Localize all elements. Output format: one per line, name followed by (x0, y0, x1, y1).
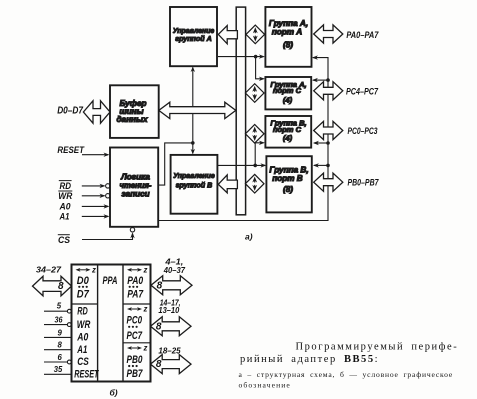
chip outer box (72, 265, 151, 382)
pin 36 wire with bubble (44, 323, 71, 327)
svg-text:группой А: группой А (175, 34, 212, 43)
svg-text:б): б) (110, 387, 118, 397)
group B port C box (265, 116, 311, 148)
svg-text:рийный адаптер ВВ55:: рийный адаптер ВВ55: (240, 354, 379, 365)
pin 35 wire (44, 373, 72, 375)
node junction dot on link at logic branch (191, 141, 195, 145)
svg-text:PA7: PA7 (127, 288, 144, 300)
pin 8 wire (44, 349, 72, 351)
svg-text:A1: A1 (77, 344, 88, 356)
svg-text:PA0: PA0 (127, 275, 144, 287)
chip divider PC/PB cells (123, 342, 151, 344)
diamond exchange symbol bus/port C lower (245, 125, 264, 144)
arrow bus to control group B (hollow) (218, 175, 237, 193)
CS input wire with inverter bubble at logic bottom (82, 228, 135, 240)
PC0-PC3 external double arrow (314, 121, 343, 139)
svg-text:PPA: PPA (103, 275, 118, 287)
label CS with overline (58, 235, 70, 245)
WR input wire with inverter bubble (82, 194, 110, 198)
svg-text:PC0: PC0 (127, 315, 143, 327)
node junction dot (255.2,165.4) (253, 164, 257, 168)
diamond exchange symbol bus/port B (245, 174, 264, 193)
svg-text:40–37: 40–37 (163, 266, 186, 275)
chip PC cell exchange mark (127, 307, 142, 311)
chip PB cell exchange mark (127, 346, 142, 350)
svg-text:18–25: 18–25 (158, 347, 181, 356)
data bus rectangle (236, 7, 245, 215)
svg-text:z: z (91, 265, 96, 274)
RESET input wire (82, 153, 110, 157)
svg-text:RESET: RESET (74, 368, 99, 380)
svg-text:Программируемый перифе-: Программируемый перифе- (296, 342, 459, 353)
svg-text:RD: RD (77, 306, 88, 318)
svg-text:порт С: порт С (273, 86, 302, 95)
svg-text:z: z (143, 344, 148, 353)
svg-text:RD: RD (60, 181, 72, 191)
svg-text:а – структурная схема, б — усл: а – структурная схема, б — условное граф… (239, 370, 454, 379)
svg-text:34–27: 34–27 (36, 266, 62, 275)
svg-text:z: z (143, 305, 148, 314)
node dot (328,165.4) (326, 164, 330, 168)
diamond exchange symbol bus/port A (246, 25, 265, 44)
svg-text:A0: A0 (59, 201, 71, 211)
svg-text:8: 8 (156, 321, 162, 332)
wire vertical link between control group A and control group B (191, 67, 195, 155)
chip PA cell exchange mark (127, 268, 142, 272)
svg-text:D0: D0 (77, 275, 90, 287)
svg-text:A1: A1 (59, 212, 70, 222)
svg-text:порт С: порт С (273, 125, 302, 134)
control group B box (171, 155, 218, 214)
34-27 external double arrow (33, 276, 72, 296)
A0 input wire (82, 204, 110, 208)
svg-text:(8): (8) (283, 41, 293, 50)
control group A box (170, 7, 217, 66)
chip divider right column (122, 265, 124, 382)
pin 9 wire (44, 336, 72, 338)
PB pins external double arrow (151, 355, 192, 374)
data bus buffer box (110, 85, 159, 138)
PA pins external double arrow (151, 276, 192, 295)
svg-text:8: 8 (156, 359, 162, 370)
group A port C box (265, 77, 311, 109)
svg-text:обозначение: обозначение (239, 381, 291, 390)
svg-text:группой В: группой В (176, 181, 213, 190)
node dot (328,80.1) (326, 78, 330, 82)
svg-text:PA0–PA7: PA0–PA7 (346, 30, 379, 40)
wire branch down to port C upper (256, 57, 265, 81)
svg-text:RESET: RESET (57, 145, 85, 155)
read/write logic box (110, 148, 158, 227)
svg-text:6: 6 (58, 353, 63, 362)
svg-text:CS: CS (77, 356, 89, 368)
svg-text:8: 8 (157, 281, 163, 292)
svg-text:z: z (143, 265, 148, 274)
D0-D7 external double arrow (83, 101, 110, 123)
svg-text:36: 36 (55, 316, 64, 325)
svg-text:8: 8 (58, 281, 64, 292)
pin 6 wire with bubble (44, 360, 71, 364)
svg-text:(8): (8) (283, 185, 293, 194)
svg-text:CS: CS (58, 235, 70, 245)
svg-text:PC0–PC3: PC0–PC3 (348, 126, 378, 136)
node junction dot (255.6,56.6) (254, 55, 258, 59)
label WR with overline (58, 191, 72, 201)
arrow bus to control group A (hollow) (218, 26, 237, 44)
wire internal control bus: port A right, down, along bottom to logic (158, 55, 328, 220)
A1 input wire (82, 214, 110, 218)
svg-text:5: 5 (57, 302, 62, 311)
svg-text:данных: данных (116, 115, 147, 124)
svg-text:записи: записи (121, 190, 149, 199)
chip divider left column (97, 265, 99, 382)
PB0-PB7 external double arrow (314, 173, 343, 191)
wire branch up to port C lower (255, 141, 265, 166)
svg-text:PC7: PC7 (127, 330, 143, 342)
RD input wire with inverter bubble (82, 184, 110, 188)
svg-text:8: 8 (58, 341, 63, 350)
PC pins external double arrow (151, 317, 192, 336)
svg-text:Управление: Управление (173, 171, 215, 180)
svg-text:а): а) (245, 232, 253, 242)
svg-text:порт В: порт В (272, 174, 303, 183)
PC4-PC7 external double arrow (314, 82, 343, 100)
group B port B box (266, 156, 311, 212)
node dot (328,143) (326, 141, 330, 145)
svg-text:D0–D7: D0–D7 (57, 106, 83, 117)
wire branch into port B right edge (313, 163, 328, 167)
wire branch into port C lower right edge (313, 141, 328, 145)
wire branch into port C upper right edge (312, 78, 328, 82)
svg-text:WR: WR (77, 319, 91, 331)
svg-text:PB0–PB7: PB0–PB7 (348, 178, 380, 188)
arrow buffer to bus (hollow double arrow) (159, 102, 236, 118)
wire control B to port B (218, 163, 266, 167)
svg-text:(4): (4) (283, 134, 293, 143)
svg-text:(4): (4) (283, 95, 293, 104)
PA0-PA7 external double arrow (314, 25, 343, 43)
wire from read/write logic up to junction (158, 143, 192, 185)
svg-text:PC4–PC7: PC4–PC7 (346, 86, 379, 96)
svg-text:35: 35 (54, 365, 63, 374)
svg-text:A0: A0 (77, 332, 89, 344)
chip D cell exchange mark (76, 268, 91, 272)
wire control A to port A (218, 54, 265, 58)
svg-text:PB7: PB7 (127, 368, 144, 380)
group A port A box (265, 7, 311, 67)
chip divider D cell bottom (72, 303, 98, 305)
svg-text:9: 9 (58, 328, 63, 337)
svg-text:порт А: порт А (272, 28, 303, 37)
svg-text:13–10: 13–10 (158, 306, 180, 315)
pin 5 wire with bubble (44, 309, 71, 313)
chip divider PA/PC cells (123, 303, 151, 305)
label RD with overline (59, 181, 72, 191)
diamond exchange symbol bus/port C upper (245, 84, 264, 103)
svg-text:WR: WR (58, 191, 72, 201)
svg-text:D7: D7 (77, 288, 90, 300)
svg-text:PB0: PB0 (127, 354, 144, 366)
